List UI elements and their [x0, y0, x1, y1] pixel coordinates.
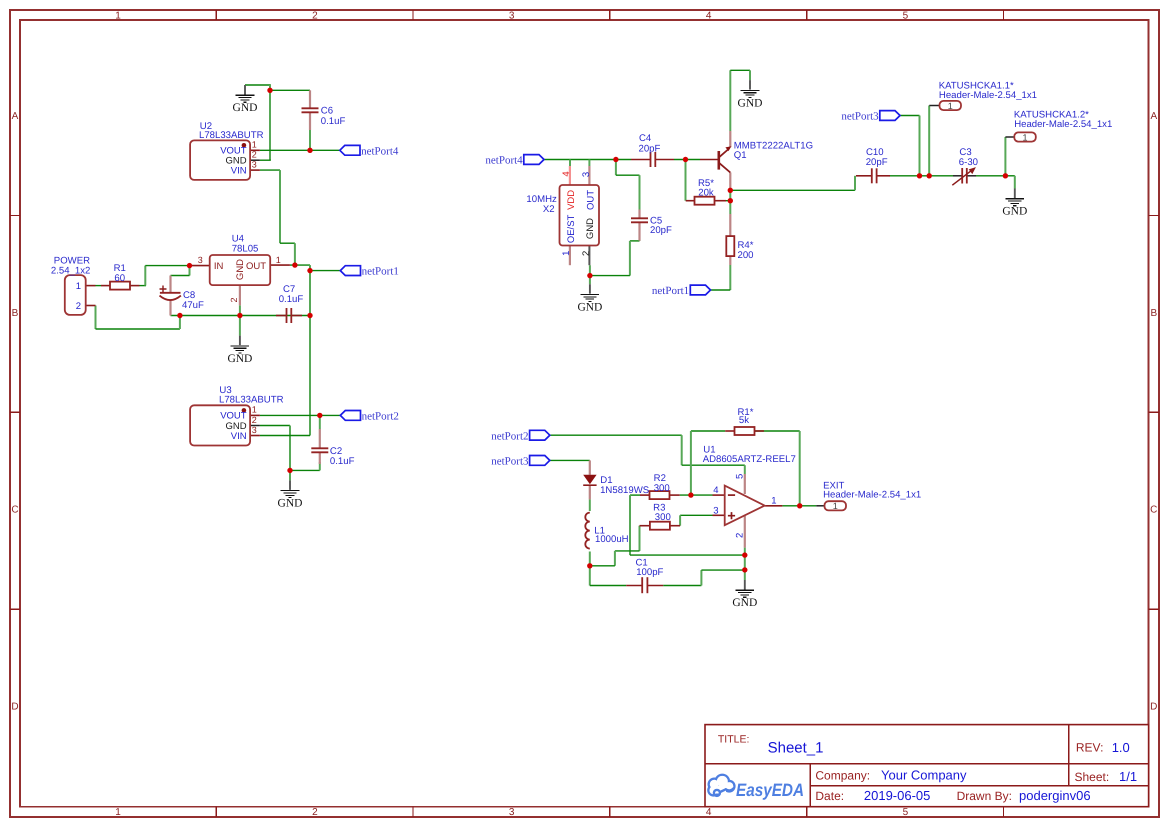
svg-text:2: 2: [312, 807, 318, 818]
svg-text:1000uH: 1000uH: [595, 534, 629, 545]
svg-text:EasyEDA: EasyEDA: [736, 780, 804, 800]
svg-text:1: 1: [252, 140, 257, 150]
svg-text:netPort1: netPort1: [652, 285, 689, 297]
svg-text:Date:: Date:: [815, 789, 844, 803]
svg-text:GND: GND: [585, 218, 596, 239]
svg-text:0.1uF: 0.1uF: [330, 456, 355, 467]
svg-text:netPort1: netPort1: [362, 266, 399, 278]
svg-text:2019-06-05: 2019-06-05: [864, 788, 931, 803]
svg-text:3: 3: [252, 425, 257, 435]
svg-text:4: 4: [561, 171, 572, 176]
svg-text:GND: GND: [278, 498, 303, 510]
svg-text:1: 1: [948, 101, 953, 111]
svg-text:3: 3: [252, 159, 257, 169]
svg-text:netPort3: netPort3: [491, 456, 529, 468]
svg-text:Sheet:: Sheet:: [1075, 770, 1110, 784]
svg-text:3: 3: [713, 505, 718, 516]
svg-text:3: 3: [509, 807, 515, 818]
svg-text:4: 4: [713, 485, 718, 496]
svg-text:1: 1: [276, 255, 281, 265]
svg-text:1: 1: [833, 501, 838, 511]
svg-text:1/1: 1/1: [1119, 769, 1137, 784]
svg-text:1: 1: [76, 281, 81, 292]
svg-text:A: A: [12, 111, 19, 122]
svg-text:GND: GND: [732, 597, 757, 609]
svg-text:1.0: 1.0: [1112, 740, 1130, 755]
svg-text:1: 1: [252, 405, 257, 415]
svg-text:Header-Male-2.54_1x1: Header-Male-2.54_1x1: [823, 490, 921, 501]
svg-text:B: B: [1150, 308, 1157, 319]
svg-text:2: 2: [229, 297, 239, 302]
svg-text:Header-Male-2.54_1x1: Header-Male-2.54_1x1: [939, 90, 1037, 101]
svg-text:2: 2: [252, 150, 257, 160]
svg-text:OE/ST: OE/ST: [566, 214, 577, 243]
svg-text:20pF: 20pF: [866, 157, 888, 168]
svg-text:20k: 20k: [698, 188, 714, 199]
svg-text:20pF: 20pF: [639, 143, 661, 154]
svg-text:1: 1: [1022, 132, 1027, 142]
svg-text:D: D: [11, 702, 18, 713]
svg-text:AD8605ARTZ-REEL7: AD8605ARTZ-REEL7: [703, 454, 796, 465]
svg-text:X2: X2: [543, 204, 555, 215]
svg-text:2: 2: [312, 10, 318, 21]
svg-text:REV:: REV:: [1076, 741, 1104, 755]
svg-text:netPort4: netPort4: [485, 155, 523, 167]
svg-text:1: 1: [561, 251, 572, 256]
svg-text:OUT: OUT: [246, 261, 266, 272]
svg-text:Q1: Q1: [734, 150, 747, 161]
svg-text:netPort3: netPort3: [841, 111, 879, 123]
svg-text:netPort2: netPort2: [491, 430, 528, 442]
svg-text:3: 3: [198, 255, 203, 265]
svg-text:VDD: VDD: [566, 190, 577, 210]
svg-text:A: A: [1150, 111, 1157, 122]
svg-text:6-30: 6-30: [959, 157, 978, 168]
svg-text:GND: GND: [738, 97, 763, 109]
svg-text:5: 5: [734, 474, 745, 479]
svg-text:100pF: 100pF: [636, 567, 663, 578]
svg-text:0.1uF: 0.1uF: [321, 116, 346, 127]
svg-text:netPort2: netPort2: [362, 411, 399, 423]
svg-text:Your Company: Your Company: [881, 767, 967, 782]
svg-text:300: 300: [655, 512, 671, 523]
svg-text:1: 1: [115, 10, 121, 21]
svg-text:5k: 5k: [739, 415, 749, 426]
svg-text:60: 60: [114, 273, 125, 284]
svg-text:B: B: [12, 308, 19, 319]
svg-text:2: 2: [581, 251, 592, 256]
svg-text:78L05: 78L05: [232, 244, 259, 255]
svg-text:netPort4: netPort4: [361, 145, 399, 157]
svg-text:4: 4: [706, 10, 712, 21]
svg-text:1: 1: [771, 496, 776, 507]
svg-text:2.54_1x2: 2.54_1x2: [51, 266, 90, 277]
svg-text:4: 4: [706, 807, 712, 818]
svg-text:300: 300: [654, 483, 670, 494]
svg-text:2: 2: [76, 301, 81, 312]
svg-text:GND: GND: [1002, 206, 1027, 218]
svg-text:D: D: [1150, 702, 1157, 713]
svg-text:Sheet_1: Sheet_1: [768, 739, 824, 756]
svg-text:20pF: 20pF: [650, 225, 672, 236]
svg-text:TITLE:: TITLE:: [718, 734, 750, 746]
svg-text:Company:: Company:: [815, 768, 870, 782]
svg-text:GND: GND: [227, 353, 252, 365]
svg-text:2: 2: [252, 415, 257, 425]
svg-text:OUT: OUT: [585, 190, 596, 210]
svg-text:GND: GND: [233, 102, 258, 114]
svg-text:47uF: 47uF: [182, 300, 204, 311]
svg-text:2: 2: [734, 533, 745, 538]
svg-text:C: C: [1150, 505, 1157, 516]
svg-text:1: 1: [115, 807, 121, 818]
svg-text:Drawn By:: Drawn By:: [957, 789, 1012, 803]
svg-text:1N5819WS: 1N5819WS: [600, 485, 649, 496]
svg-text:0.1uF: 0.1uF: [279, 294, 304, 305]
svg-text:VIN: VIN: [231, 165, 247, 176]
svg-text:3: 3: [581, 172, 592, 177]
svg-text:VIN: VIN: [231, 431, 247, 442]
svg-text:IN: IN: [214, 261, 224, 272]
svg-text:3: 3: [509, 10, 515, 21]
svg-text:5: 5: [903, 807, 909, 818]
svg-text:GND: GND: [235, 259, 246, 280]
svg-text:200: 200: [738, 250, 754, 261]
svg-text:Header-Male-2.54_1x1: Header-Male-2.54_1x1: [1014, 119, 1112, 130]
svg-text:poderginv06: poderginv06: [1019, 788, 1091, 803]
svg-text:C: C: [11, 505, 18, 516]
svg-text:5: 5: [903, 10, 909, 21]
svg-text:GND: GND: [577, 301, 602, 313]
